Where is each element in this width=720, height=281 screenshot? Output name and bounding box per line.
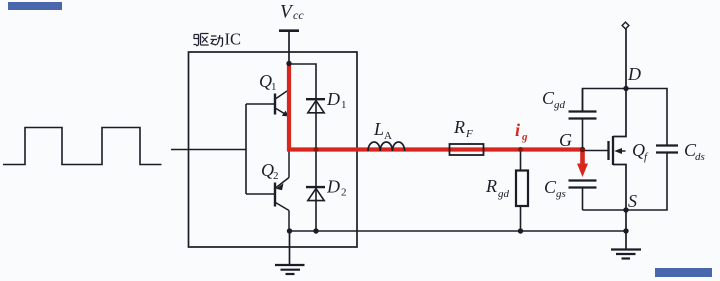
svg-text:IC: IC <box>225 30 242 49</box>
diode D2 <box>306 150 325 231</box>
wire source vertical <box>613 165 626 249</box>
node dot D1 anode on red wire <box>314 147 319 152</box>
svg-text:i: i <box>515 120 520 140</box>
wire internal bottom rail <box>290 230 626 232</box>
svg-text:R: R <box>453 117 465 137</box>
blue bar bottom-right <box>655 268 712 277</box>
resistor RF <box>450 144 484 155</box>
resistor Rgd <box>516 151 528 231</box>
capacitor Cgs <box>569 181 597 211</box>
svg-text:G: G <box>559 130 572 150</box>
wire branch node to D1 <box>289 64 316 148</box>
capacitor Cgd <box>569 89 597 149</box>
transistor Qf MOSFET <box>609 136 626 165</box>
transistor Q1 <box>246 64 289 151</box>
node dot rail right <box>623 228 628 233</box>
node dot D2 cathode rail <box>313 228 318 233</box>
red gate drive path <box>289 64 583 165</box>
svg-text:D: D <box>326 89 340 109</box>
svg-text:ds: ds <box>695 151 705 163</box>
svg-text:L: L <box>373 119 384 139</box>
node dot Q2 collector rail <box>287 228 292 233</box>
red arrow ig into Cgs <box>577 164 588 178</box>
svg-text:D: D <box>627 64 641 84</box>
wire gate line <box>583 150 609 152</box>
wire source node line <box>583 153 668 210</box>
diode D1 <box>306 99 325 113</box>
node dot ig branch <box>518 147 523 152</box>
svg-text:1: 1 <box>341 99 347 111</box>
ground right <box>611 250 641 259</box>
inductor LA <box>368 142 405 151</box>
svg-text:g: g <box>521 131 528 143</box>
wire drain vertical <box>613 29 626 137</box>
blue bar top-left <box>8 2 62 10</box>
ground left <box>275 231 305 274</box>
svg-text:R: R <box>485 176 497 196</box>
Vcc power bar <box>279 29 299 32</box>
wire drain node line <box>583 89 668 146</box>
wire Vcc to node <box>288 32 290 64</box>
svg-text:gd: gd <box>554 99 566 111</box>
wire base bus <box>245 104 247 194</box>
svg-text:A: A <box>384 130 392 142</box>
node terminal drain top <box>622 22 629 29</box>
svg-text:S: S <box>628 191 637 211</box>
square wave input signal <box>3 128 162 165</box>
svg-text:2: 2 <box>273 170 279 182</box>
svg-text:D: D <box>326 177 340 197</box>
node dot drain node <box>623 86 628 91</box>
svg-text:1: 1 <box>271 81 277 93</box>
label 驱动IC <box>194 34 224 47</box>
svg-text:gs: gs <box>556 188 566 200</box>
wire input line <box>171 149 246 151</box>
driver IC box <box>189 52 358 247</box>
svg-text:cc: cc <box>293 8 304 22</box>
node dot Rgd rail <box>518 228 523 233</box>
node dot Vcc/D1 branch <box>286 61 291 66</box>
node dot gate junction <box>580 147 585 152</box>
svg-text:F: F <box>465 128 473 140</box>
capacitor Cds <box>656 146 678 153</box>
node dot source node <box>623 207 628 212</box>
svg-text:gd: gd <box>498 188 510 200</box>
svg-text:2: 2 <box>341 187 347 199</box>
transistor Q2 <box>246 150 289 231</box>
